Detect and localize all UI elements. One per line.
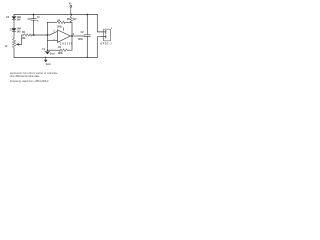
svg-text:n: n <box>37 20 39 22</box>
ground stub on bottom rail <box>45 57 47 59</box>
wire bottom rail <box>14 56 97 58</box>
svg-text:4k7: 4k7 <box>73 18 78 21</box>
svg-text:when R2/4 are the same value.: when R2/4 are the same value. <box>10 74 40 78</box>
wire rail to jack pin1 <box>97 15 106 32</box>
resistor R4 <box>57 21 65 24</box>
svg-text:100k: 100k <box>58 53 64 55</box>
resistor R5 vertical <box>70 15 73 23</box>
capacitor C2 <box>86 15 88 58</box>
wire top rail <box>14 14 97 16</box>
svg-text:100n: 100n <box>78 39 84 41</box>
svg-text:100k: 100k <box>57 26 63 28</box>
svg-text:R2: R2 <box>22 32 26 34</box>
svg-text:Gnd: Gnd <box>46 64 51 66</box>
potentiometer R7 <box>12 39 15 49</box>
op-amp U1 <box>57 30 70 43</box>
diode D1 <box>12 15 16 17</box>
ground arrow at rail <box>44 60 48 63</box>
junction dots <box>33 14 89 58</box>
svg-text:C1: C1 <box>42 49 46 51</box>
svg-text:Gnd: Gnd <box>50 53 55 55</box>
wire output down to R1 <box>67 36 72 50</box>
svg-text:1N4: 1N4 <box>17 16 22 19</box>
wire output <box>70 35 84 37</box>
V+ terminal <box>70 5 72 7</box>
capacitor C3 branch <box>33 15 35 36</box>
diode D2 <box>12 27 16 29</box>
pot wiper arrow <box>16 43 19 45</box>
op-amp power stub <box>63 28 65 31</box>
ground arrow below C1 <box>45 52 49 54</box>
svg-text:C4: C4 <box>6 16 10 19</box>
wire feedback horizontal <box>47 21 56 23</box>
svg-text:148: 148 <box>17 18 22 21</box>
svg-text:KPS2-1: KPS2-1 <box>101 43 113 45</box>
svg-text:V+: V+ <box>69 3 73 6</box>
svg-text:148: 148 <box>17 30 22 33</box>
jack connector K1 <box>103 29 110 41</box>
svg-text:CA3130: CA3130 <box>60 42 73 45</box>
caption text <box>10 71 58 83</box>
resistor R1 <box>59 49 67 52</box>
svg-text:C2: C2 <box>81 32 85 34</box>
resistor R2 <box>24 34 32 37</box>
svg-text:1k: 1k <box>5 46 8 48</box>
wire R2 to node <box>32 34 48 36</box>
svg-text:1N4: 1N4 <box>17 28 22 31</box>
wire jack pin2 to rail <box>97 37 106 58</box>
wire R4 to output node <box>65 22 72 36</box>
wire node to opamp inverting input (diagonal) <box>47 32 57 35</box>
capacitor C1 to ground <box>45 50 50 52</box>
svg-text:R1: R1 <box>58 47 62 49</box>
svg-text:1: 1 <box>111 28 113 30</box>
wire feedback vertical <box>46 22 48 51</box>
wire wiper to R2 <box>18 35 23 44</box>
svg-text:10k: 10k <box>22 38 27 40</box>
wire R1 to C1 node <box>47 49 59 51</box>
wire left column <box>13 15 15 58</box>
wire noninverting input <box>47 39 57 41</box>
svg-text:10: 10 <box>37 17 40 19</box>
svg-text:Frequency varies from ~866-129: Frequency varies from ~866-1290Hz <box>10 79 49 83</box>
